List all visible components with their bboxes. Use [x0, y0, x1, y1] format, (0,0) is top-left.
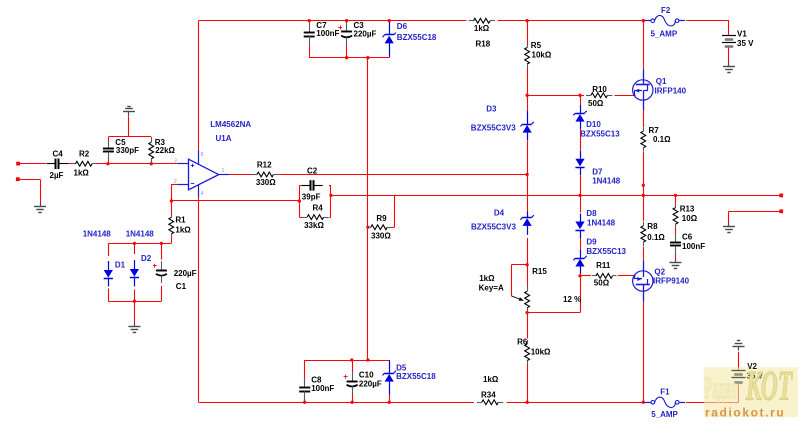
ground output terminal	[723, 223, 735, 233]
svg-text:C4: C4	[53, 149, 64, 158]
svg-text:Q1: Q1	[656, 77, 667, 86]
wire V1 branch	[728, 21, 730, 63]
resistor R34 1k	[477, 375, 504, 405]
ground above C5	[123, 107, 135, 117]
wire mid bias vertical	[367, 58, 369, 360]
node C1 top	[160, 242, 163, 245]
svg-text:D1: D1	[115, 261, 126, 270]
node C2/R4 box right	[329, 194, 332, 197]
node rail R6	[525, 401, 528, 404]
resistor R1	[169, 214, 191, 237]
label V2 35V over watermark	[747, 362, 764, 381]
node top rail C7	[308, 19, 311, 22]
svg-text:12 %: 12 %	[563, 295, 581, 304]
svg-text:R15: R15	[532, 267, 547, 276]
watermark KOT text	[745, 364, 793, 410]
wire D1/D2/C1 box edges	[108, 243, 161, 301]
wire C8/C10/D5 top edge	[305, 360, 390, 362]
svg-text:10kΩ: 10kΩ	[531, 347, 551, 356]
svg-text:R13: R13	[680, 205, 695, 214]
node feedback junction	[170, 199, 173, 202]
zener D9 BZX55C13	[573, 237, 626, 273]
svg-text:BZX55C13: BZX55C13	[580, 129, 620, 138]
svg-text:1: 1	[222, 168, 225, 174]
svg-text:50Ω: 50Ω	[588, 99, 604, 108]
svg-text:R1: R1	[175, 215, 186, 224]
svg-text:220µF: 220µF	[359, 379, 382, 388]
svg-text:R34: R34	[481, 391, 496, 400]
node R11 tap	[578, 274, 581, 277]
capacitor C3 220uF	[338, 21, 376, 46]
watermark radiokot.ru text	[705, 405, 785, 419]
wire op-amp output line	[229, 174, 527, 176]
svg-text:10Ω: 10Ω	[682, 214, 698, 223]
zener D5 BZX55C18	[383, 360, 437, 395]
svg-text:1kΩ: 1kΩ	[479, 274, 495, 283]
ground below V1	[723, 63, 735, 73]
svg-text:R18: R18	[476, 39, 491, 48]
svg-text:8: 8	[201, 152, 204, 158]
svg-text:1kΩ: 1kΩ	[483, 375, 499, 384]
node C2/R4 box left	[298, 199, 301, 202]
watermark Radio text	[704, 372, 737, 406]
svg-text:50Ω: 50Ω	[594, 279, 610, 288]
wire V2 branch	[738, 352, 740, 403]
capacitor C6 100nF	[670, 233, 705, 255]
wire R11 gate feed	[580, 275, 634, 277]
node rail C10	[350, 401, 353, 404]
svg-text:Радио: Радио	[704, 372, 737, 406]
svg-text:V1: V1	[737, 29, 747, 38]
fuse F2 5_AMP	[645, 6, 685, 39]
wire C5/R3 top edge	[108, 137, 151, 140]
node pot top	[525, 263, 528, 266]
svg-text:D9: D9	[586, 237, 597, 246]
capacitor C4	[47, 149, 68, 180]
svg-text:КОТ: КОТ	[745, 364, 793, 410]
svg-text:R6: R6	[517, 338, 528, 347]
svg-text:4: 4	[201, 191, 204, 197]
svg-text:BZX55C18: BZX55C18	[397, 33, 437, 42]
svg-text:R4: R4	[313, 203, 324, 212]
battery V2 plates over watermark	[732, 371, 746, 383]
node top rail Q1	[642, 19, 645, 22]
wire Q1 source to R7	[643, 110, 645, 127]
svg-text:330Ω: 330Ω	[256, 178, 276, 187]
svg-text:100nF: 100nF	[316, 29, 339, 38]
resistor R4 33k	[302, 203, 329, 230]
node D2 top	[133, 242, 136, 245]
svg-text:Key=A: Key=A	[479, 284, 504, 293]
svg-text:D6: D6	[397, 22, 408, 31]
capacitor C1 220uF	[153, 261, 197, 291]
wire output node line to right	[331, 195, 781, 197]
svg-text:2: 2	[174, 179, 177, 185]
node rail C8	[303, 401, 306, 404]
svg-text:C1: C1	[176, 282, 187, 291]
zener D10 BZX55C13	[573, 105, 620, 138]
watermark radiokot overlay	[704, 367, 798, 417]
fuse F1 5_AMP	[645, 388, 685, 420]
battery V1 35V	[722, 29, 754, 48]
wire R15/R6 bottom link	[527, 312, 580, 314]
wire -35V bottom rail	[199, 402, 739, 404]
wire C5 bottom to input line	[108, 159, 110, 164]
svg-text:D2: D2	[141, 254, 152, 263]
node rail D5	[388, 401, 391, 404]
label 1N4148 D2	[126, 230, 155, 239]
wire R15 pot branch	[511, 265, 527, 296]
battery V2 35V	[732, 371, 746, 383]
svg-text:F2: F2	[661, 6, 671, 15]
svg-text:BZX55C3V3: BZX55C3V3	[471, 124, 516, 133]
svg-text:1N4148: 1N4148	[587, 219, 616, 228]
svg-text:C6: C6	[682, 233, 693, 242]
svg-text:330pF: 330pF	[116, 146, 139, 155]
svg-text:1N4148: 1N4148	[592, 177, 621, 186]
svg-text:100nF: 100nF	[682, 242, 705, 251]
resistor R7 0.1	[641, 126, 671, 152]
watermark base area	[704, 367, 798, 417]
wire D10/D7/D8/D9 vertical x=580	[580, 95, 582, 312]
svg-text:330Ω: 330Ω	[371, 231, 391, 240]
resistor R8 0.1	[641, 222, 666, 247]
capacitor C10 220uF	[344, 370, 382, 395]
resistor R13 10	[673, 204, 698, 229]
ground below C6	[670, 258, 682, 268]
wire R10 gate feed	[527, 95, 634, 97]
node C5 junction	[106, 162, 109, 165]
svg-text:39pF: 39pF	[302, 193, 321, 202]
svg-text:22kΩ: 22kΩ	[155, 146, 175, 155]
resistor R10 50	[586, 85, 613, 108]
wire output terminal stub	[729, 211, 782, 222]
node output R7/R8	[642, 194, 645, 197]
svg-text:D8: D8	[586, 209, 597, 218]
resistor R11 50	[592, 261, 617, 288]
wire R8 to Q2	[643, 247, 645, 261]
wire op-amp -supply pin 4 drop	[198, 197, 200, 402]
node top rail R5	[525, 19, 528, 22]
svg-text:R8: R8	[647, 222, 658, 231]
node output D8	[578, 194, 581, 197]
svg-text:3: 3	[174, 159, 177, 165]
label 1N4148 D1	[83, 230, 112, 239]
node output terminal	[779, 194, 783, 198]
node C10 top	[350, 358, 353, 361]
wire R3 bottom to input line	[151, 160, 153, 164]
wire R1 bottom to D1/D2/C1 box	[108, 237, 171, 244]
svg-text:1kΩ: 1kΩ	[74, 169, 90, 178]
svg-text:R12: R12	[257, 161, 272, 170]
node R9 tap	[366, 226, 369, 229]
svg-text:100nF: 100nF	[311, 384, 334, 393]
svg-text:R5: R5	[531, 41, 542, 50]
diode D2 1N4148	[130, 254, 152, 286]
wire Q2 to bottom rail	[643, 302, 645, 403]
svg-text:U1A: U1A	[216, 134, 232, 143]
zener D4 BZX55C3V3	[471, 209, 534, 235]
svg-text:220µF: 220µF	[354, 30, 377, 39]
diode D8 1N4148	[575, 209, 615, 238]
node top rail C3	[345, 19, 348, 22]
mosfet Q1 IRFP140	[633, 70, 687, 111]
svg-text:R10: R10	[592, 85, 607, 94]
svg-text:5_AMP: 5_AMP	[651, 30, 678, 39]
potentiometer R15 1k	[479, 267, 582, 311]
resistor R18 1k	[469, 18, 496, 48]
node output R13	[674, 194, 677, 197]
svg-text:33kΩ: 33kΩ	[304, 221, 324, 230]
svg-text:10kΩ: 10kΩ	[532, 51, 552, 60]
wire input2 to ground	[18, 179, 41, 202]
node R7 wire dot	[642, 184, 645, 187]
wire R7 to output node	[643, 152, 645, 221]
node top rail D6	[388, 19, 391, 22]
svg-text:D10: D10	[586, 120, 601, 129]
svg-text:0.1Ω: 0.1Ω	[647, 233, 665, 242]
wire cap connector stubs	[109, 21, 676, 403]
wire C2/R4 box	[299, 185, 331, 217]
node op-amp drive end	[525, 173, 528, 176]
wire R9 riser	[389, 195, 394, 227]
resistor R6 10k	[517, 338, 551, 365]
wire C7/C3/D6 bottom edge	[309, 57, 389, 59]
resistor R12	[252, 161, 279, 188]
resistor R9 330	[367, 214, 392, 241]
svg-text:IRFP9140: IRFP9140	[653, 277, 690, 286]
svg-text:BZX55C13: BZX55C13	[586, 247, 626, 256]
wire op-amp +supply pin 8 riser	[198, 21, 200, 151]
svg-text:D4: D4	[494, 209, 505, 218]
resistor R5 10k	[525, 41, 552, 68]
svg-text:radiokot.ru: radiokot.ru	[705, 405, 785, 419]
ground input	[34, 203, 46, 213]
node rail Q2	[642, 401, 645, 404]
svg-text:R2: R2	[79, 149, 90, 158]
svg-text:0.1Ω: 0.1Ω	[653, 135, 671, 144]
svg-text:1N4148: 1N4148	[83, 230, 112, 239]
node mid bias top	[366, 56, 369, 59]
node pot bottom	[525, 311, 528, 314]
svg-text:35 V: 35 V	[737, 39, 754, 48]
resistor R2	[72, 149, 97, 177]
capacitor C7 100nF	[304, 21, 340, 46]
capacitor C5	[103, 138, 139, 159]
svg-text:R9: R9	[376, 214, 387, 223]
svg-text:2µF: 2µF	[50, 171, 64, 180]
wire R1 top lead from feedback node	[171, 201, 173, 215]
svg-text:C10: C10	[359, 370, 374, 379]
svg-text:IRFP140: IRFP140	[655, 87, 687, 96]
wire op-amp inverting feedback jog	[171, 184, 299, 201]
wire +35V top rail	[199, 20, 729, 22]
node R3 junction	[150, 162, 153, 165]
svg-text:5_AMP: 5_AMP	[651, 410, 678, 419]
zener D6 BZX55C18	[383, 22, 437, 57]
svg-text:1kΩ: 1kΩ	[474, 24, 490, 33]
wire R5/D3/D4 vertical x=527	[527, 21, 529, 285]
node input terminal 1	[16, 162, 20, 166]
ground above V2	[733, 341, 745, 351]
svg-text:220µF: 220µF	[174, 269, 197, 278]
svg-text:1N4148: 1N4148	[126, 230, 155, 239]
wire R15 to R6	[527, 311, 529, 402]
svg-text:BZX55C18: BZX55C18	[396, 372, 436, 381]
op-amp U1A LM4562NA	[174, 120, 251, 197]
diode D1 1N4148	[104, 261, 126, 287]
node D2 bottom	[133, 300, 136, 303]
diode D7 1N4148	[575, 151, 620, 186]
mosfet Q2 IRFP9140	[633, 261, 690, 302]
node mid bias bottom	[366, 358, 369, 361]
node output ground terminal	[779, 209, 783, 213]
svg-text:D3: D3	[486, 105, 497, 114]
wire D2 to ground	[134, 301, 136, 322]
svg-text:BZX55C3V3: BZX55C3V3	[471, 223, 516, 232]
svg-text:Q2: Q2	[654, 268, 665, 277]
svg-text:C3: C3	[354, 21, 365, 30]
svg-text:C2: C2	[307, 167, 318, 176]
svg-text:R7: R7	[649, 126, 660, 135]
svg-text:R11: R11	[596, 261, 611, 270]
ground below D2	[128, 323, 140, 333]
wire ground tap above C5	[128, 116, 130, 137]
svg-text:F1: F1	[660, 388, 670, 397]
wire R13 top stub	[675, 195, 677, 203]
capacitor C2 39pF	[301, 167, 322, 202]
node gate drive D10	[578, 94, 581, 97]
node gate drive D3	[525, 94, 528, 97]
svg-text:1kΩ: 1kΩ	[175, 226, 191, 235]
wire input line	[18, 163, 177, 165]
svg-text:D7: D7	[592, 168, 603, 177]
zener D3 BZX55C3V3	[471, 105, 534, 141]
capacitor C8 100nF	[299, 376, 334, 402]
node input terminal 2	[16, 177, 20, 181]
resistor R3	[149, 137, 176, 164]
wire Q1 drain drop	[643, 21, 645, 70]
svg-text:LM4562NA: LM4562NA	[210, 120, 251, 129]
node C3 bottom	[345, 56, 348, 59]
